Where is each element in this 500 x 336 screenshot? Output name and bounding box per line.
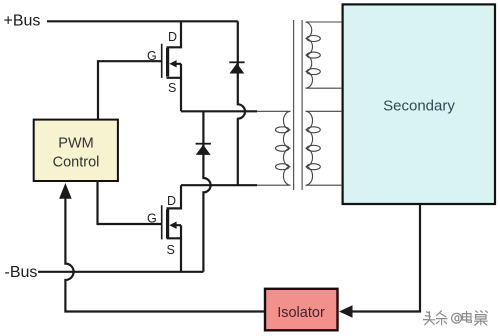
svg-text:D: D bbox=[167, 194, 176, 208]
svg-text:-Bus: -Bus bbox=[5, 264, 38, 281]
svg-text:G: G bbox=[147, 49, 157, 63]
svg-text:S: S bbox=[168, 81, 176, 95]
svg-text:PWM: PWM bbox=[58, 136, 93, 152]
svg-text:+Bus: +Bus bbox=[4, 13, 41, 30]
svg-text:D: D bbox=[168, 30, 177, 44]
svg-text:Secondary: Secondary bbox=[383, 98, 455, 115]
svg-text:Isolator: Isolator bbox=[277, 305, 325, 321]
svg-text:S: S bbox=[167, 243, 175, 257]
svg-text:G: G bbox=[147, 212, 157, 226]
svg-text:Control: Control bbox=[53, 154, 100, 170]
